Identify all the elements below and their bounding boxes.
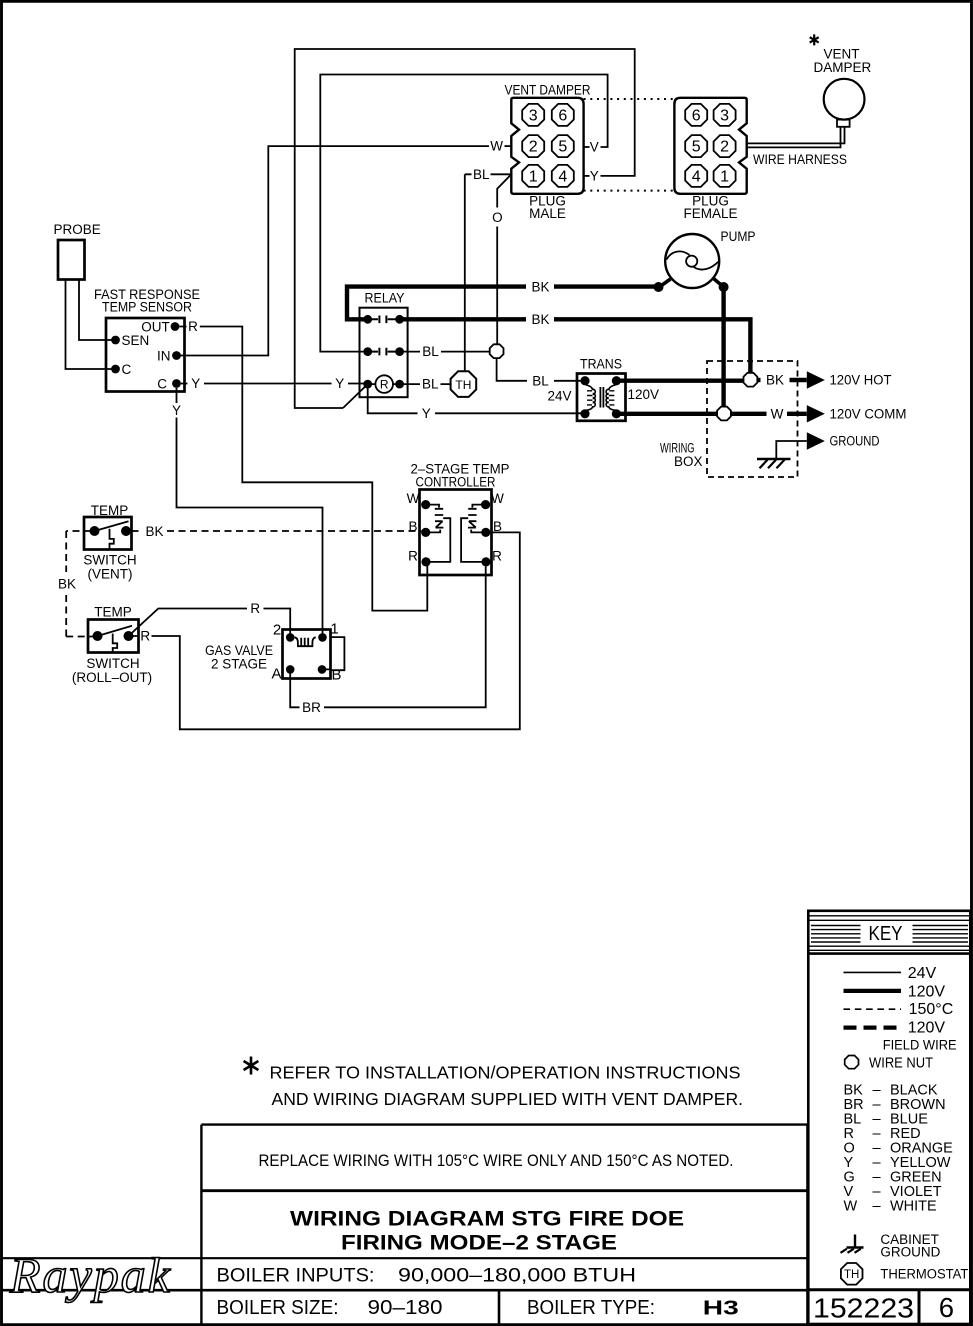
svg-text:RELAY: RELAY (365, 290, 405, 305)
pin 5 (552, 135, 574, 157)
relay contact row2 (363, 347, 372, 356)
wire Y down: sensor C to gas valve pin 1 (177, 388, 323, 638)
wire R: sensor OUT to controller left R (179, 327, 427, 611)
pin 1 (714, 165, 736, 187)
terminal right W (481, 500, 490, 509)
wire dotted 150C bottom between plugs (584, 190, 675, 192)
gas valve bracket (322, 637, 344, 670)
key cabinet ground symbol (847, 1235, 864, 1248)
wire W dash at male plug (505, 145, 512, 147)
temp sensor U1 (94, 287, 200, 392)
svg-text:GROUND: GROUND (830, 434, 880, 449)
wire W out to arrow (731, 412, 807, 416)
pin 120V bottom (612, 409, 621, 418)
svg-text:Y: Y (422, 406, 431, 421)
svg-text:BOX: BOX (674, 454, 703, 469)
node pump left terminal (654, 282, 664, 292)
svg-text:2: 2 (529, 139, 538, 156)
wire Y dash at male plug (584, 175, 590, 177)
wire Y: sensor C to relay row3 (181, 383, 368, 385)
svg-text:PUMP: PUMP (721, 229, 756, 244)
svg-text:C: C (157, 377, 167, 392)
gas valve GV1 (205, 621, 344, 684)
svg-text:BOILER TYPE:: BOILER TYPE: (527, 1297, 655, 1319)
terminal right R (481, 557, 490, 566)
svg-text:BR: BR (302, 700, 321, 715)
wire diagonal into relay row3 (343, 384, 368, 408)
svg-text:2: 2 (273, 622, 281, 639)
svg-text:–: – (873, 1198, 882, 1214)
svg-text:CONTROLLER: CONTROLLER (416, 475, 496, 490)
wire V dash at male plug (584, 146, 590, 148)
gas valve coil (295, 637, 316, 646)
cabinet ground symbol wiring box (757, 458, 791, 460)
wire heavy pump right leg down to wirenut W (721, 287, 725, 406)
svg-text:4: 4 (558, 168, 567, 185)
svg-text:BK: BK (531, 279, 549, 294)
svg-text:R: R (250, 601, 260, 616)
relay coil R row3 (363, 380, 372, 389)
svg-text:BK: BK (145, 524, 163, 539)
pin 4 (685, 165, 707, 187)
primary coil (585, 385, 595, 411)
svg-text:24V: 24V (547, 389, 571, 404)
pin B (318, 665, 327, 674)
terminal C left (111, 365, 120, 374)
svg-text:TEMP: TEMP (91, 503, 129, 518)
2-stage temp controller U2 (407, 462, 510, 576)
svg-text:H3: H3 (703, 1298, 739, 1320)
key thermostat symbol (841, 1263, 863, 1285)
svg-text:Y: Y (172, 403, 181, 418)
terminal C right (172, 379, 181, 388)
terminal left W (421, 500, 430, 509)
svg-text:(VENT): (VENT) (88, 567, 133, 582)
arrow 120V HOT (807, 371, 825, 388)
svg-text:WHITE: WHITE (890, 1198, 937, 1214)
svg-text:B: B (493, 519, 502, 534)
key number row (808, 1288, 970, 1291)
svg-text:KEY: KEY (869, 923, 903, 945)
svg-text:120V: 120V (908, 983, 946, 1000)
wire BR gas valve A to controller right R (290, 566, 486, 707)
svg-text:R: R (140, 629, 150, 644)
wire Y relay row3 to transformer 24V bottom (368, 384, 585, 413)
svg-text:6: 6 (558, 107, 567, 124)
svg-text:R: R (188, 319, 198, 334)
svg-text:BK: BK (531, 312, 549, 327)
key color list (844, 1083, 954, 1215)
pin 1 (522, 165, 544, 187)
svg-text:90,000–180,000 BTUH: 90,000–180,000 BTUH (398, 1265, 636, 1287)
svg-text:R: R (492, 549, 502, 564)
svg-text:TRANS: TRANS (580, 357, 622, 372)
svg-text:4: 4 (692, 168, 701, 185)
wire BL wire nut to transformer 24V top (497, 358, 585, 381)
svg-text:B: B (408, 519, 417, 534)
pump M1 (660, 229, 756, 288)
svg-text:TEMP SENSOR: TEMP SENSOR (102, 300, 192, 315)
arrow GROUND (807, 432, 825, 449)
svg-text:W: W (407, 491, 420, 506)
wire heavy 120V trans bottom to wirenut W (616, 412, 716, 416)
svg-text:TH: TH (844, 1269, 859, 1281)
key sample 120V field wire (844, 1025, 902, 1029)
wire heavy 120V trans top to wirenut BK (616, 379, 743, 383)
PROBE (58, 240, 85, 280)
pin 2 (714, 135, 736, 157)
pump swirl (667, 251, 719, 269)
svg-text:5: 5 (558, 139, 567, 156)
KEYBOX (808, 911, 970, 1324)
svg-text:2 STAGE: 2 STAGE (211, 657, 267, 672)
wire dashed BK vent switch to controller B (132, 530, 143, 532)
svg-text:1: 1 (529, 168, 538, 185)
svg-text:90–180: 90–180 (368, 1297, 443, 1319)
label asterisk vent damper (810, 34, 819, 45)
svg-text:FEMALE: FEMALE (683, 206, 737, 221)
right stage switch glyph (461, 505, 484, 562)
svg-text:120V COMM: 120V COMM (830, 406, 907, 421)
pin A (286, 665, 295, 674)
node pump right terminal (719, 282, 729, 292)
temp switch rollout S2 (72, 605, 152, 686)
svg-text:Raypak: Raypak (9, 1247, 172, 1303)
female plug P2 (674, 98, 746, 221)
relay K1 (360, 290, 408, 397)
terminal OUT (171, 322, 180, 331)
wire ground lead (776, 441, 807, 459)
svg-text:Y: Y (191, 376, 200, 391)
svg-text:120V: 120V (628, 387, 660, 402)
thermostat TH octagon (451, 371, 477, 397)
svg-text:SEN: SEN (122, 333, 150, 348)
transformer T1 (547, 357, 659, 421)
node wire nut W (717, 407, 731, 421)
svg-text:B: B (331, 666, 341, 683)
pin 6 (685, 104, 707, 126)
pump legs (660, 279, 723, 287)
svg-text:1: 1 (330, 621, 338, 638)
key sample 150C dashed (844, 1008, 902, 1010)
wire dashed BK vent switch to rollout switch (66, 531, 94, 637)
wire dotted 150C top between plugs (584, 98, 675, 100)
svg-text:W: W (844, 1198, 858, 1214)
note asterisk (244, 1057, 259, 1075)
svg-text:DAMPER: DAMPER (814, 60, 872, 75)
svg-text:O: O (492, 210, 503, 225)
svg-text:OUT: OUT (141, 320, 170, 335)
svg-text:R: R (408, 549, 418, 564)
terminal left B (421, 528, 430, 537)
svg-text:24V: 24V (908, 965, 937, 982)
svg-text:V: V (590, 140, 599, 155)
svg-text:PROBE: PROBE (54, 222, 101, 237)
node wire nut O/BL junction (490, 344, 504, 358)
svg-text:IN: IN (157, 349, 171, 364)
vent damper circle (824, 79, 865, 120)
pin 24V bottom (580, 409, 589, 418)
svg-text:5: 5 (692, 139, 701, 156)
svg-text:AND WIRING DIAGRAM SUPPLIED: AND WIRING DIAGRAM SUPPLIED WITH VENT DA… (272, 1089, 744, 1109)
wire heavy BK out to arrow (757, 378, 807, 382)
wire BL: male plug to TH thermostat (465, 174, 512, 370)
svg-text:FIRING MODE–2 STAGE: FIRING MODE–2 STAGE (341, 1232, 617, 1255)
svg-text:2: 2 (720, 139, 729, 156)
pin 5 (685, 135, 707, 157)
wiring box dashed (707, 361, 798, 477)
wire BL relay row2 right to wire nut (400, 351, 490, 353)
svg-text:TEMP: TEMP (94, 605, 132, 620)
svg-text:BOILER INPUTS:: BOILER INPUTS: (217, 1265, 375, 1287)
svg-text:BK: BK (58, 577, 76, 592)
svg-text:GROUND: GROUND (880, 1245, 940, 1260)
svg-text:SWITCH: SWITCH (83, 553, 136, 568)
terminal IN (172, 351, 181, 360)
svg-text:W: W (491, 491, 504, 506)
svg-text:152223: 152223 (813, 1293, 914, 1324)
pin 4 (552, 165, 574, 187)
svg-text:MALE: MALE (529, 206, 566, 221)
svg-text:3: 3 (720, 107, 729, 124)
wire probe to SEN (79, 280, 112, 340)
wire W: sensor IN to male plug pin W (177, 146, 490, 355)
svg-text:3: 3 (529, 107, 538, 124)
svg-text:BK: BK (766, 373, 784, 388)
svg-text:SWITCH: SWITCH (86, 656, 139, 671)
svg-text:R: R (380, 377, 389, 391)
terminal left R (421, 557, 430, 566)
svg-text:REPLACE WIRING WITH 105°C: REPLACE WIRING WITH 105°C WIRE ONLY AND … (259, 1151, 734, 1170)
arrow 120V COMM (807, 405, 825, 422)
key sample 120V line (844, 989, 902, 993)
svg-text:WIRE HARNESS: WIRE HARNESS (753, 152, 847, 167)
vent damper stem rect (837, 120, 850, 127)
svg-text:C: C (122, 362, 132, 377)
pin 120V top (612, 376, 621, 385)
wire BL relay row3 right to TH (400, 383, 451, 385)
svg-text:120V HOT: 120V HOT (830, 373, 892, 388)
title block frame lines (200, 1125, 202, 1324)
wire top loop 2: male plug pin V to relay row2 left (320, 75, 607, 352)
svg-text:TH: TH (455, 378, 471, 392)
pin 6 (552, 104, 574, 126)
pin 2 (286, 633, 295, 642)
wire R rollout diagonal to gas valve pin 2 (129, 609, 291, 638)
svg-text:REFER TO INSTALLATION/OPERAT: REFER TO INSTALLATION/OPERATION INSTRUCT… (270, 1063, 741, 1083)
pin 24V top (580, 376, 589, 385)
svg-text:BOILER SIZE:: BOILER SIZE: (217, 1297, 339, 1319)
wire heavy BK relay row1 right to wirenut (400, 319, 751, 372)
svg-text:FIELD WIRE: FIELD WIRE (883, 1037, 957, 1053)
wire harness double line (747, 127, 845, 148)
svg-text:THERMOSTAT: THERMOSTAT (880, 1267, 968, 1282)
svg-text:BL: BL (422, 377, 439, 392)
pin 2 (522, 135, 544, 157)
temp switch vent S1 (83, 503, 136, 582)
svg-text:WIRE NUT: WIRE NUT (869, 1056, 933, 1072)
wire O: male plug to wire nut (497, 174, 511, 344)
svg-text:W: W (490, 139, 503, 154)
pin 3 (714, 104, 736, 126)
svg-text:W: W (771, 406, 784, 421)
svg-text:WIRING DIAGRAM STG FIRE DO: WIRING DIAGRAM STG FIRE DOE (290, 1208, 684, 1231)
svg-text:6: 6 (692, 107, 701, 124)
male plug P1 (505, 83, 591, 222)
key box frame (808, 911, 970, 1324)
svg-text:1: 1 (720, 168, 729, 185)
svg-text:BL: BL (422, 344, 439, 359)
svg-text:VENT DAMPER: VENT DAMPER (505, 83, 591, 98)
svg-text:(ROLL–OUT): (ROLL–OUT) (72, 670, 152, 685)
wire heavy BK relay row1 left to pump (347, 287, 659, 320)
svg-text:120V: 120V (908, 1019, 946, 1036)
svg-text:A: A (271, 665, 281, 682)
svg-text:Y: Y (590, 168, 599, 183)
wire top loop 1: male plug pin Y to relay row3 node (295, 49, 635, 408)
key header hatch lines (808, 916, 970, 921)
relay contact row1 (363, 315, 372, 324)
wire probe to C (66, 280, 112, 369)
left stage switch glyph (428, 505, 450, 562)
key sample 24V line (844, 971, 902, 973)
core (600, 387, 603, 408)
svg-text:BL: BL (473, 167, 490, 182)
svg-text:BL: BL (532, 373, 549, 388)
pin 1 (318, 633, 327, 642)
secondary coil (606, 385, 616, 411)
svg-text:Y: Y (335, 376, 344, 391)
terminal right B (481, 528, 490, 537)
svg-text:6: 6 (939, 1292, 954, 1323)
svg-text:150°C: 150°C (909, 1001, 954, 1018)
node wire nut BK (744, 373, 758, 387)
terminal SEN (111, 336, 120, 345)
pin 3 (522, 104, 544, 126)
key wire nut symbol (845, 1056, 859, 1069)
wire R rollout to controller right B (133, 532, 520, 729)
